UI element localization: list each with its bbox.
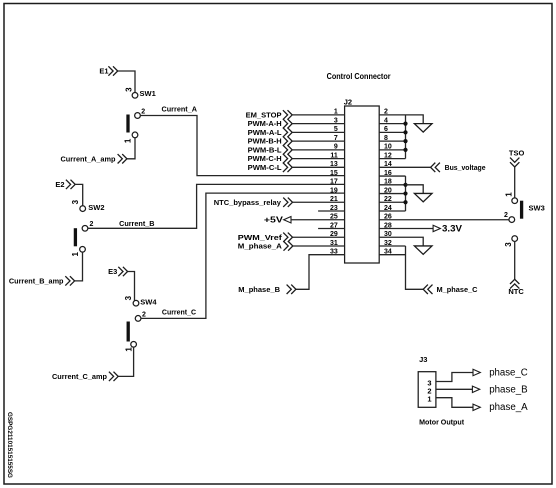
switch SW4 pin 1	[131, 341, 137, 347]
junction pin 8	[403, 139, 407, 143]
svg-text:31: 31	[330, 240, 338, 247]
svg-text:3: 3	[71, 199, 80, 204]
svg-text:TSO: TSO	[509, 149, 525, 158]
J2 pin 34 wire	[379, 254, 405, 256]
wire J3 pin 3 to phase_C	[436, 373, 473, 382]
svg-text:10: 10	[384, 144, 392, 151]
net phase_B	[472, 386, 479, 392]
switch SW3 pin 3	[512, 236, 518, 242]
bus pins 32-34 down to M_phase_C	[406, 246, 424, 289]
junction pin 22	[403, 200, 407, 204]
svg-text:SW2: SW2	[88, 203, 104, 212]
svg-text:17: 17	[330, 179, 338, 186]
svg-text:SW3: SW3	[529, 203, 545, 212]
J2 pin 22 wire	[379, 201, 405, 203]
wire E2 to SW2 pin 3	[75, 184, 83, 206]
svg-text:33: 33	[330, 249, 338, 256]
J2 pin 14 Bus_voltage	[379, 166, 430, 168]
J2 pin 27 stub	[318, 227, 345, 229]
svg-text:2: 2	[141, 108, 145, 115]
svg-text:phase_B: phase_B	[489, 384, 528, 395]
svg-text:J3: J3	[419, 355, 427, 364]
svg-text:PWM-C-L: PWM-C-L	[248, 163, 282, 172]
switch SW3 pin 2	[509, 217, 515, 223]
svg-text:PWM-C-H: PWM-C-H	[248, 154, 282, 163]
J2 pin 12 wire	[379, 158, 405, 160]
ground G1	[414, 124, 432, 132]
svg-text:PWM-B-L: PWM-B-L	[248, 145, 282, 154]
J2 pin 2 to ground tap	[379, 115, 423, 124]
bus pins 2-12	[405, 115, 407, 159]
svg-text:2: 2	[142, 312, 146, 319]
svg-text:M_phase_A: M_phase_A	[238, 242, 283, 251]
svg-text:16: 16	[384, 170, 392, 177]
svg-text:Current_A_amp: Current_A_amp	[61, 155, 116, 164]
ground G2	[414, 193, 432, 201]
svg-text:18: 18	[384, 179, 392, 186]
J2 pin 4 wire	[379, 123, 405, 125]
wire J2 pin 33 to M_phase_B	[296, 255, 345, 290]
J2 pin 6 wire	[379, 131, 405, 133]
svg-text:13: 13	[330, 161, 338, 168]
bus pins 16-24	[405, 176, 407, 211]
J2 pin 32 wire	[379, 245, 405, 247]
junction pin 4	[403, 122, 407, 126]
svg-text:32: 32	[384, 240, 392, 247]
connector Bus_voltage	[431, 163, 440, 172]
svg-text:19: 19	[330, 187, 338, 194]
junction pin 20	[403, 191, 407, 195]
svg-text:PWM-B-H: PWM-B-H	[248, 137, 282, 146]
junction pin 10	[403, 148, 407, 152]
net phase_C	[473, 369, 480, 375]
switch SW1 pin 2	[135, 113, 141, 119]
svg-text:29: 29	[330, 231, 338, 238]
svg-text:Current_B: Current_B	[119, 219, 155, 228]
svg-text:3: 3	[124, 87, 133, 92]
J2 pin 18 wire	[379, 184, 405, 186]
net phase_A	[473, 404, 480, 410]
connector J2 body	[345, 106, 380, 263]
wire Current_A from SW1 pin 2 to J2 pin 15	[140, 116, 344, 176]
J2 pin 10 wire	[379, 149, 405, 151]
svg-text:+5V: +5V	[264, 215, 283, 225]
switch SW2 pin 1	[80, 246, 86, 252]
J2 pin 28 3.3V	[379, 227, 433, 229]
svg-text:26: 26	[384, 214, 392, 221]
svg-text:30: 30	[384, 231, 392, 238]
svg-text:Motor Output: Motor Output	[419, 417, 464, 426]
wire J3 pin 1 to phase_A	[436, 398, 473, 408]
svg-text:15: 15	[330, 170, 338, 177]
svg-text:22: 22	[384, 196, 392, 203]
svg-text:20: 20	[384, 187, 392, 194]
junction pin 18	[403, 183, 407, 187]
connector M_phase_C	[423, 285, 432, 294]
svg-text:1: 1	[334, 109, 338, 116]
ground tap G2	[406, 185, 424, 194]
wire E1 to SW1 pin 3	[118, 71, 135, 93]
svg-text:3: 3	[124, 295, 133, 300]
svg-text:Current_A: Current_A	[162, 104, 198, 113]
J2 pin 30 to ground tap	[379, 237, 423, 246]
wire TSO to SW3 pin 1	[514, 167, 516, 198]
svg-text:NTC: NTC	[508, 287, 524, 296]
wire SW4 pin 1 to Current_C_amp	[118, 347, 133, 376]
switch SW4 pin 3	[133, 300, 139, 306]
svg-text:5: 5	[334, 126, 338, 133]
svg-text:34: 34	[384, 249, 392, 256]
svg-text:GSPG21101515155SG: GSPG21101515155SG	[6, 412, 13, 478]
svg-text:1: 1	[71, 252, 80, 257]
switch SW3 pin 1	[512, 198, 518, 204]
switch SW1 pin 1	[132, 132, 138, 138]
switch SW4 pin 2	[135, 316, 141, 322]
connector J3 body	[418, 372, 436, 408]
svg-text:E3: E3	[108, 267, 117, 276]
svg-text:2: 2	[384, 109, 388, 116]
svg-text:28: 28	[384, 222, 392, 229]
wire SW2 pin 1 to Current_B_amp	[75, 252, 83, 281]
svg-text:12: 12	[384, 152, 392, 159]
svg-text:1: 1	[123, 138, 132, 143]
svg-text:Current_C_amp: Current_C_amp	[52, 372, 107, 381]
wire Current_B from SW2 pin 2 to J2 pin 17	[88, 184, 345, 228]
wire Current_C from SW4 pin 2 to J2 pin 19	[141, 193, 345, 318]
switch SW2 lever	[74, 228, 77, 246]
svg-text:25: 25	[330, 214, 338, 221]
connector NTC	[510, 279, 519, 288]
switch SW1 pin 3	[132, 92, 138, 98]
svg-text:3.3V: 3.3V	[442, 223, 462, 233]
svg-text:M_phase_C: M_phase_C	[437, 285, 479, 294]
switch SW2 pin 3	[80, 206, 86, 212]
svg-text:Current_C: Current_C	[162, 307, 197, 316]
svg-text:24: 24	[384, 205, 392, 212]
svg-text:11: 11	[330, 152, 338, 159]
svg-text:3: 3	[334, 117, 338, 124]
svg-text:27: 27	[330, 222, 338, 229]
svg-text:NTC_bypass_relay: NTC_bypass_relay	[214, 198, 282, 207]
svg-text:phase_A: phase_A	[489, 402, 528, 413]
svg-text:SW4: SW4	[140, 297, 157, 306]
wire SW3 pin 3 to NTC	[514, 241, 516, 279]
switch SW1 lever	[126, 115, 129, 133]
J2 pin 24 wire	[379, 210, 405, 212]
svg-text:8: 8	[384, 135, 388, 142]
svg-text:SW1: SW1	[140, 89, 156, 98]
svg-text:23: 23	[330, 205, 338, 212]
ground G3	[414, 246, 432, 254]
svg-text:2: 2	[90, 221, 94, 228]
svg-text:J2: J2	[344, 97, 352, 106]
svg-text:9: 9	[334, 144, 338, 151]
svg-text:E1: E1	[99, 67, 108, 76]
J2 pin 16 wire	[379, 175, 405, 177]
switch SW2 pin 2	[82, 225, 88, 231]
wire J3 pin 2 to phase_B	[436, 388, 473, 390]
svg-text:21: 21	[330, 196, 338, 203]
J2 pin 20 wire	[379, 193, 405, 195]
svg-text:1: 1	[427, 395, 431, 404]
svg-text:1: 1	[505, 192, 514, 197]
junction pin 6	[403, 130, 407, 134]
svg-text:PWM_Vref: PWM_Vref	[238, 233, 283, 242]
J2 pin 26 wire to SW3	[379, 219, 509, 221]
net 3.3V	[433, 225, 440, 231]
svg-text:Control Connector: Control Connector	[327, 72, 391, 81]
wire SW1 pin 1 to Current_A_amp	[127, 138, 135, 159]
svg-text:PWM-A-L: PWM-A-L	[248, 128, 282, 137]
svg-text:phase_C: phase_C	[489, 367, 528, 378]
switch SW4 lever	[127, 322, 130, 342]
J2 pin 23 stub	[318, 210, 345, 212]
svg-text:M_phase_B: M_phase_B	[238, 285, 280, 294]
switch SW3 lever	[520, 201, 523, 219]
svg-text:3: 3	[504, 242, 513, 247]
svg-text:7: 7	[334, 135, 338, 142]
svg-text:Current_B_amp: Current_B_amp	[9, 277, 64, 286]
svg-text:Bus_voltage: Bus_voltage	[445, 163, 486, 172]
svg-text:2: 2	[504, 212, 508, 219]
wire E3 to SW4 pin 3	[128, 272, 135, 301]
svg-text:E2: E2	[55, 180, 64, 189]
svg-text:14: 14	[384, 161, 392, 168]
svg-text:1: 1	[124, 347, 133, 352]
svg-text:EM_STOP: EM_STOP	[246, 111, 282, 120]
svg-text:4: 4	[384, 117, 388, 124]
svg-text:6: 6	[384, 126, 388, 133]
J2 pin 8 wire	[379, 140, 405, 142]
svg-text:PWM-A-H: PWM-A-H	[248, 119, 282, 128]
